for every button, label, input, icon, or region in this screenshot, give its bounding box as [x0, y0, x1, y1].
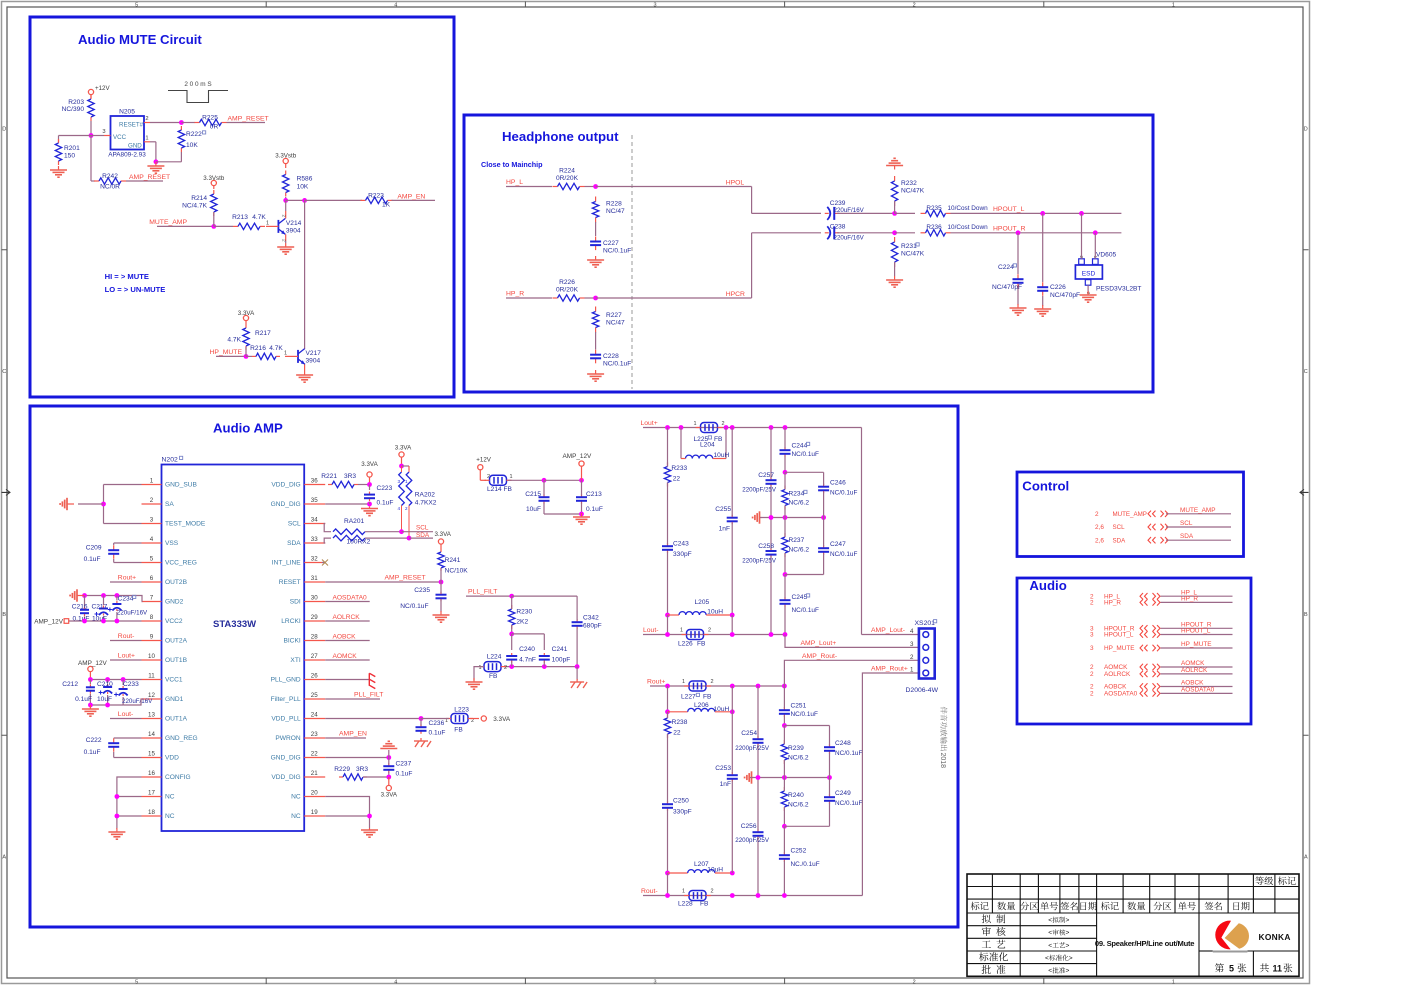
ground under R231	[886, 276, 903, 287]
svg-text:HPOUT_R: HPOUT_R	[993, 226, 1026, 233]
svg-text:2: 2	[722, 421, 725, 427]
transistor V217	[285, 348, 321, 371]
net label AOBCK	[325, 634, 370, 641]
svg-text:XS201: XS201	[915, 620, 936, 627]
svg-text:3.3VA: 3.3VA	[395, 445, 412, 452]
svg-text:9: 9	[150, 634, 154, 641]
svg-text:HP_MUTE: HP_MUTE	[210, 349, 243, 356]
capacitor C223	[364, 485, 393, 507]
svg-text:ESD: ESD	[1082, 271, 1096, 278]
svg-text:4.7nF: 4.7nF	[519, 657, 536, 664]
svg-text:NC: NC	[291, 794, 301, 801]
resistor R586	[283, 171, 313, 197]
svg-text:AMP_RESET: AMP_RESET	[129, 174, 170, 181]
svg-text:NC./0.1uF: NC./0.1uF	[791, 861, 820, 868]
wire AMP_RESET left drop	[91, 136, 95, 182]
resistor R217	[227, 324, 271, 350]
svg-text:GND_DIG: GND_DIG	[271, 501, 301, 508]
section box Control	[1017, 472, 1244, 557]
svg-text:V217: V217	[306, 350, 322, 357]
svg-text:GND_REG: GND_REG	[165, 735, 198, 742]
svg-text:C217: C217	[92, 604, 108, 611]
svg-text:GND: GND	[128, 143, 142, 150]
svg-text:R201: R201	[64, 145, 80, 152]
wire mid rail left	[760, 515, 826, 520]
svg-text:R224: R224	[559, 168, 575, 175]
svg-text:220uF/16V: 220uF/16V	[834, 235, 865, 242]
svg-text:C212: C212	[62, 681, 78, 688]
svg-text:VCC_REG: VCC_REG	[165, 560, 197, 567]
svg-text:C226: C226	[1050, 284, 1066, 291]
svg-text:AMP_Rout+: AMP_Rout+	[871, 666, 908, 673]
svg-text:VCC: VCC	[113, 134, 127, 141]
svg-text:3.3VA: 3.3VA	[381, 792, 398, 799]
wire +12V to VCC node	[89, 121, 94, 138]
port AOLRCK	[1090, 667, 1233, 678]
resistor R232	[891, 176, 924, 206]
net label AMP_EN	[392, 193, 436, 200]
svg-text:AOLRCK: AOLRCK	[1181, 667, 1208, 674]
svg-text:3: 3	[397, 479, 400, 484]
svg-text:4.7K: 4.7K	[269, 345, 283, 352]
svg-text:C258: C258	[758, 543, 774, 550]
svg-text:HI = > MUTE: HI = > MUTE	[105, 272, 149, 281]
svg-text:<: <	[1048, 942, 1052, 949]
svg-text:BICKI: BICKI	[283, 638, 300, 645]
port HPOUT_R	[1090, 622, 1233, 633]
svg-text:NC/0.1uF: NC/0.1uF	[792, 607, 819, 614]
svg-text:3.3VA: 3.3VA	[493, 716, 511, 723]
svg-text:RESET#: RESET#	[119, 122, 144, 129]
svg-text:AMP_EN: AMP_EN	[397, 193, 425, 200]
svg-text:30: 30	[311, 595, 318, 602]
svg-text:R226: R226	[559, 279, 575, 286]
svg-text:R239: R239	[788, 745, 804, 752]
capacitor C253	[715, 712, 738, 873]
net label MUTE_AMP	[149, 219, 214, 226]
svg-text:L214 FB: L214 FB	[487, 486, 513, 493]
ground arrow GND2	[70, 589, 84, 601]
svg-text:NC/6.2: NC/6.2	[788, 802, 809, 809]
svg-text:B: B	[1304, 612, 1308, 618]
svg-text:R234: R234	[789, 491, 805, 498]
resistor R221	[321, 473, 358, 488]
svg-text:1nF: 1nF	[720, 781, 731, 788]
svg-text:VCC2: VCC2	[165, 618, 183, 625]
svg-text:RESET: RESET	[279, 579, 301, 586]
resistor R227	[592, 307, 625, 333]
svg-text:4: 4	[394, 979, 397, 985]
svg-text:0.1uF: 0.1uF	[586, 506, 603, 513]
svg-text:0R/20K: 0R/20K	[556, 287, 579, 294]
svg-text:VD605: VD605	[1096, 252, 1116, 259]
net label Lout+ pin10	[110, 653, 142, 661]
svg-text:C: C	[2, 369, 6, 375]
resistor R226	[553, 279, 585, 301]
capacitor C209	[84, 543, 142, 563]
svg-text:C215: C215	[525, 491, 541, 498]
resistor R230	[509, 596, 533, 629]
svg-text:L228: L228	[678, 901, 693, 908]
svg-text:NC/47K: NC/47K	[901, 251, 925, 258]
svg-text:Audio: Audio	[1029, 578, 1066, 593]
svg-text:A: A	[1304, 855, 1308, 861]
port HP_L	[1090, 589, 1233, 600]
svg-text:HP_L: HP_L	[506, 179, 523, 186]
svg-text:+12V: +12V	[95, 85, 110, 92]
svg-text:VDD: VDD	[165, 755, 179, 762]
svg-text:N205: N205	[119, 109, 135, 116]
svg-text:10: 10	[148, 653, 155, 660]
capacitor C222	[84, 737, 142, 758]
ferrite bead L214	[485, 474, 584, 493]
svg-text:L223: L223	[454, 707, 469, 714]
capacitor C258	[742, 518, 777, 635]
wire Lout+ line	[665, 425, 861, 430]
svg-text:C216: C216	[72, 604, 88, 611]
svg-text:OUT1A: OUT1A	[165, 716, 188, 723]
svg-text:2018: 2018	[939, 753, 946, 769]
svg-text:HPOL: HPOL	[726, 179, 745, 186]
inductor L204	[681, 428, 730, 460]
capacitor C233	[114, 680, 153, 706]
ground arrow SA	[60, 498, 74, 510]
net label PLL_FILT pin25	[325, 692, 383, 700]
svg-text:C240: C240	[519, 646, 535, 653]
capacitor C239	[825, 200, 865, 220]
svg-text:MUTE_AMP: MUTE_AMP	[149, 219, 187, 226]
ferrite bead L226	[678, 628, 711, 648]
vertical annotation text	[939, 707, 947, 768]
net label Lout- pin13	[110, 711, 142, 719]
svg-text:LRCKI: LRCKI	[281, 618, 301, 625]
wire AMP_Rout+ vertical	[862, 666, 919, 896]
svg-text:10uF: 10uF	[97, 696, 112, 703]
resistor array RA201	[324, 518, 433, 546]
svg-text:VDD_DIG: VDD_DIG	[271, 482, 300, 489]
capacitor C215	[525, 480, 549, 514]
svg-text:5: 5	[150, 556, 154, 563]
port AOSDATA0	[1090, 687, 1233, 698]
svg-text:HP_R: HP_R	[1181, 596, 1198, 603]
capacitor C210	[97, 680, 113, 706]
wire ESD pins	[1082, 213, 1096, 293]
power AMP_12V pin8	[34, 619, 68, 626]
resistor R241	[438, 549, 468, 575]
svg-text:NC/0.1uF: NC/0.1uF	[400, 603, 428, 610]
svg-text:1: 1	[266, 221, 269, 227]
svg-text:C238: C238	[830, 224, 846, 231]
net label Rout+ pin6	[110, 575, 142, 583]
svg-text:HP_R: HP_R	[1104, 600, 1121, 607]
svg-text:L204: L204	[700, 442, 715, 449]
text HI MUTE	[105, 272, 149, 281]
svg-text:NC/47: NC/47	[606, 208, 625, 215]
resistor R242	[94, 173, 126, 191]
svg-text:AMP_Lout-: AMP_Lout-	[871, 627, 905, 634]
capacitor C224	[992, 233, 1024, 305]
net label HPOUT_L	[951, 206, 1122, 216]
svg-text:A: A	[2, 855, 6, 861]
svg-text:HP_MUTE: HP_MUTE	[1181, 641, 1212, 648]
resistor R213	[232, 214, 269, 230]
capacitor C245	[780, 575, 819, 635]
wire mid rail right	[750, 775, 832, 780]
svg-text:>: >	[1066, 917, 1070, 924]
ground under C226	[1034, 305, 1051, 316]
port AOMCK	[1090, 660, 1233, 671]
wire NC pins 19 20	[325, 797, 372, 829]
svg-text:C210: C210	[97, 681, 113, 688]
capacitor C342	[572, 614, 602, 667]
dashed separator line	[631, 135, 633, 389]
svg-text:1: 1	[405, 479, 408, 484]
capacitor C237	[383, 758, 412, 778]
svg-text:2: 2	[711, 679, 714, 685]
svg-text:AOSDATA0: AOSDATA0	[1104, 691, 1138, 698]
svg-text:C247: C247	[830, 541, 846, 548]
ground under C223	[361, 507, 378, 516]
capacitor C255	[715, 428, 737, 635]
wire CONFIG NC pins	[115, 777, 142, 829]
power +12V L214	[476, 457, 491, 481]
svg-text:680pF: 680pF	[583, 623, 602, 630]
svg-text:NC/47: NC/47	[606, 320, 625, 327]
svg-text:<: <	[1048, 968, 1052, 975]
capacitor C244	[780, 428, 819, 475]
svg-text:R222: R222	[186, 131, 202, 138]
svg-text:22: 22	[673, 730, 681, 737]
svg-text:Headphone output: Headphone output	[502, 129, 619, 144]
svg-text:C245: C245	[792, 594, 808, 601]
svg-text:32: 32	[311, 556, 318, 563]
svg-text:NC: NC	[291, 813, 301, 820]
svg-text:AMP_12V: AMP_12V	[563, 453, 593, 460]
title block table grid	[967, 874, 1299, 976]
inductor L205	[665, 599, 732, 635]
svg-text:HPCR: HPCR	[726, 291, 745, 298]
svg-text:Control: Control	[1022, 479, 1069, 494]
svg-text:2: 2	[504, 665, 507, 671]
svg-text:1: 1	[1172, 979, 1175, 985]
ground arrow PLL_GND	[325, 673, 375, 688]
svg-text:1: 1	[680, 628, 683, 634]
svg-text:2: 2	[1095, 511, 1099, 518]
capacitor C217	[92, 596, 109, 623]
svg-text:NC: NC	[165, 794, 175, 801]
svg-text:HPOUT_L: HPOUT_L	[993, 206, 1025, 213]
capacitor C235	[400, 582, 446, 612]
section box Audio MUTE Circuit	[30, 17, 454, 397]
ground arrow mid rail left	[753, 511, 762, 523]
svg-text:1K: 1K	[382, 202, 391, 209]
svg-text:N202: N202	[162, 457, 178, 464]
capacitor C248	[784, 726, 862, 778]
svg-text:VSS: VSS	[165, 540, 179, 547]
inductor L207	[665, 861, 735, 896]
net label AMP_EN pin23	[325, 731, 367, 739]
svg-text:NC/0.1uF: NC/0.1uF	[835, 750, 862, 757]
svg-text:AMP_EN: AMP_EN	[339, 731, 367, 738]
svg-text:RA202: RA202	[415, 492, 435, 499]
capacitor C240	[506, 646, 536, 664]
svg-text:HP_MUTE: HP_MUTE	[1104, 645, 1135, 652]
svg-text:5: 5	[135, 2, 138, 8]
svg-text:NC/0.1uF: NC/0.1uF	[603, 248, 631, 255]
resistor R214	[182, 190, 217, 216]
capacitor C228	[590, 332, 631, 368]
svg-text:3904: 3904	[306, 358, 321, 365]
svg-text:2 0 0 m S: 2 0 0 m S	[184, 81, 211, 88]
inverted ground above pin22	[380, 741, 397, 748]
svg-text:R213: R213	[232, 214, 248, 221]
capacitor C238	[825, 224, 865, 242]
net label Rout-	[641, 888, 668, 896]
svg-text:2: 2	[281, 215, 287, 218]
ground under C227	[587, 256, 604, 267]
wire VCC1 rail	[88, 677, 142, 682]
svg-text:V214: V214	[286, 220, 302, 227]
svg-text:C243: C243	[673, 541, 689, 548]
svg-text:C224: C224	[998, 264, 1014, 271]
svg-text:09. Speaker/HP/Line out/Mute: 09. Speaker/HP/Line out/Mute	[1095, 939, 1194, 948]
svg-text:C256: C256	[741, 823, 757, 830]
svg-text:D: D	[2, 126, 6, 132]
ground under C212	[82, 705, 99, 716]
svg-text:10K: 10K	[186, 142, 198, 149]
section box Audio AMP	[30, 406, 958, 927]
wire Rout- line	[665, 893, 862, 898]
power 3.3VA C223	[361, 461, 378, 485]
svg-text:1: 1	[284, 351, 287, 357]
net label Rout- pin9	[110, 633, 142, 641]
svg-text:R237: R237	[789, 537, 805, 544]
resistor R201	[55, 139, 80, 165]
port HP_MUTE	[1090, 641, 1233, 652]
svg-text:NC/470pF: NC/470pF	[1050, 292, 1080, 299]
svg-text:FB: FB	[703, 694, 712, 701]
ground under C224	[1010, 304, 1027, 315]
svg-text:PWRON: PWRON	[275, 735, 301, 742]
svg-text:10uH: 10uH	[707, 609, 723, 616]
svg-text:31: 31	[311, 575, 318, 582]
svg-text:NC: NC	[165, 813, 175, 820]
resistor R239	[781, 726, 809, 778]
capacitor C257	[742, 428, 777, 518]
svg-text:NC/47K: NC/47K	[901, 188, 925, 195]
svg-text:R221: R221	[321, 473, 337, 480]
wire AMP_Lout- vertical	[862, 428, 919, 635]
svg-text:NC/0R: NC/0R	[100, 184, 120, 191]
ferrite bead L227	[681, 679, 714, 701]
svg-text:SDA: SDA	[1180, 533, 1194, 540]
svg-text:10uH: 10uH	[714, 452, 730, 459]
svg-text:C252: C252	[791, 848, 807, 855]
svg-text:C239: C239	[830, 200, 846, 207]
ferrite bead L228	[678, 889, 714, 908]
net label Lout+	[641, 420, 668, 428]
svg-text:>: >	[1066, 930, 1070, 937]
ground below R201	[50, 166, 67, 177]
junction MUTE_AMP	[211, 212, 233, 229]
svg-text:2: 2	[1090, 691, 1094, 698]
svg-text:3.3Vstb: 3.3Vstb	[275, 153, 297, 160]
ground arrow mid rail right	[745, 771, 754, 783]
svg-text:INT_LINE: INT_LINE	[272, 560, 302, 567]
svg-text:3: 3	[653, 979, 656, 985]
svg-text:>: >	[1069, 955, 1073, 962]
svg-text:L226: L226	[678, 641, 693, 648]
net label HPCR	[726, 291, 745, 298]
svg-text:VCC1: VCC1	[165, 677, 183, 684]
svg-text:<: <	[1048, 930, 1052, 937]
svg-text:26: 26	[311, 673, 318, 680]
svg-text:11: 11	[1273, 964, 1283, 974]
port MUTE_AMP	[1095, 507, 1231, 518]
svg-text:6: 6	[150, 575, 154, 582]
svg-text:OUT2A: OUT2A	[165, 638, 188, 645]
svg-text:C249: C249	[835, 790, 851, 797]
svg-text:29: 29	[311, 614, 318, 621]
svg-text:R231: R231	[901, 243, 917, 250]
svg-text:23: 23	[311, 731, 318, 738]
ESD diode VD605	[1075, 252, 1141, 295]
capacitor C243	[662, 483, 692, 616]
ground under V214	[277, 241, 294, 254]
capacitor C216	[72, 596, 90, 623]
ground under V217	[296, 371, 313, 382]
svg-text:C257: C257	[758, 472, 774, 479]
svg-text:C: C	[1304, 369, 1308, 375]
power 3.3VA L223	[481, 716, 511, 723]
svg-text:4: 4	[150, 536, 154, 543]
net label Lout-	[643, 627, 668, 635]
svg-text:NC/390: NC/390	[62, 106, 85, 113]
capacitor C251	[779, 686, 818, 728]
power 3.3VA RA202	[395, 445, 412, 471]
svg-text:HP_R: HP_R	[506, 291, 524, 298]
svg-text:0.1uF: 0.1uF	[75, 696, 92, 703]
svg-text:B: B	[2, 612, 6, 618]
svg-text:FB: FB	[714, 436, 723, 443]
svg-text:AOBCK: AOBCK	[333, 634, 357, 641]
svg-text:3.3VA: 3.3VA	[361, 461, 378, 468]
net label AMP_RESET left	[126, 174, 170, 181]
capacitor C236	[416, 719, 446, 737]
svg-text:0.1uF: 0.1uF	[396, 771, 413, 778]
svg-text:0.1uF: 0.1uF	[84, 749, 101, 756]
svg-text:3.3Vstb: 3.3Vstb	[203, 175, 225, 182]
sheet numbers	[1215, 963, 1293, 973]
svg-text:Rout+: Rout+	[118, 575, 136, 582]
svg-text:NC/4.7K: NC/4.7K	[182, 203, 208, 210]
wire Lout- line	[665, 632, 787, 637]
svg-text:R233: R233	[671, 465, 687, 472]
svg-text:+12V: +12V	[476, 457, 491, 464]
wire GND pin to R222	[150, 142, 181, 164]
svg-text:Close to Mainchip: Close to Mainchip	[481, 160, 543, 169]
capacitor C254	[735, 686, 770, 778]
net label HP_R	[506, 291, 552, 299]
svg-text:10uH: 10uH	[707, 867, 723, 874]
svg-text:2: 2	[708, 628, 711, 634]
section box Headphone output	[464, 115, 1153, 392]
port SDA	[1095, 533, 1231, 544]
svg-text:220uF/16V: 220uF/16V	[117, 610, 148, 617]
wire RESET# to node	[150, 120, 195, 125]
svg-text:MUTE_AMP: MUTE_AMP	[1113, 511, 1147, 518]
svg-text:27: 27	[311, 653, 318, 660]
